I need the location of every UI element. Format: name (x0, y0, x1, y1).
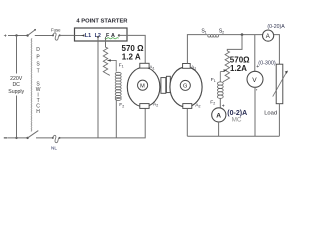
svg-text:DC: DC (12, 82, 20, 88)
svg-text:2: 2 (156, 104, 158, 108)
wire generator A1 up to top wire (187, 35, 207, 64)
generator brush terminal top (183, 64, 191, 69)
starter box (75, 28, 128, 41)
label S1 (201, 29, 206, 35)
svg-text:Load: Load (264, 110, 277, 116)
label S2 (219, 28, 224, 34)
svg-text:Fuse: Fuse (51, 28, 61, 33)
load rheostat rect (276, 64, 283, 104)
wire load down to rail (278, 104, 280, 137)
wire F stud down to rheostat (105, 37, 107, 47)
svg-text:4 POINT STARTER: 4 POINT STARTER (76, 18, 128, 24)
svg-text:D: D (36, 47, 40, 53)
svg-text:1: 1 (214, 79, 216, 83)
label A1 (generator) (191, 64, 196, 70)
svg-text:2: 2 (222, 30, 224, 34)
wire voltmeter down to rail (254, 87, 256, 136)
node junction generator field tap (241, 33, 244, 36)
svg-text:A: A (266, 34, 270, 40)
svg-text:(0-20)A: (0-20)A (267, 24, 285, 30)
generator inner circle G (180, 80, 190, 90)
svg-text:1.2 A: 1.2 A (122, 52, 141, 61)
wire ammeter MC down to rail (218, 122, 220, 136)
label F2 (generator field bottom) (210, 99, 215, 105)
label 220V DC Supply (8, 76, 24, 95)
label A2 (motor) (153, 101, 158, 107)
motor armature circle (127, 67, 160, 106)
svg-text:1: 1 (122, 65, 124, 69)
svg-text:2: 2 (199, 105, 201, 109)
wire field tap down and left to rheostat (227, 35, 242, 51)
svg-text:1: 1 (153, 67, 155, 71)
resistor generator field rheostat zigzag (223, 51, 230, 82)
switch DPST bottom pole blade (26, 137, 28, 139)
fuse coil between S1 and S2 (208, 34, 219, 37)
svg-text:1: 1 (194, 67, 196, 71)
svg-text:MC: MC (232, 116, 242, 123)
wire bottom rail generator side (187, 135, 279, 137)
node minus terminal of 220V supply (4, 137, 7, 139)
wire A stud right and down to motor A1 (119, 35, 145, 63)
node L2 stud (97, 36, 99, 38)
svg-text:(0-300): (0-300) (258, 61, 276, 67)
resistor motor field rheostat zigzag (103, 47, 110, 75)
wire L2 stud down to bottom rail (97, 37, 99, 138)
node junction top-left (15, 34, 17, 36)
fuse Fuse (top wire) (51, 28, 61, 41)
svg-text:1.2A: 1.2A (230, 64, 247, 73)
wire ammeter right and down to load (274, 35, 280, 65)
svg-text:+: + (4, 33, 7, 39)
svg-text:L1: L1 (85, 33, 91, 39)
generator brush terminal bottom (183, 104, 192, 109)
wire generator A2 down to rail (186, 108, 188, 136)
svg-text:2: 2 (213, 102, 215, 106)
wire top after switch to fuse (35, 35, 53, 37)
green squiggle under F A (105, 38, 119, 39)
coupling box generator side (166, 76, 170, 92)
svg-text:G: G (183, 84, 187, 90)
wire bottom after switch to fuse NL (36, 137, 53, 139)
wire voltmeter tap down (254, 35, 256, 72)
svg-text:H: H (36, 109, 40, 115)
label DPST SWITCH vertical (36, 47, 41, 115)
rheostat wiper arrow (motor) (110, 60, 116, 71)
inductor generator field coil F1-F2 (217, 82, 223, 99)
wire into L1 with arrow (75, 35, 83, 37)
wire bottom rail to motor A2 (60, 108, 146, 137)
motor inner circle M (138, 80, 148, 90)
wire left supply rail lower (16, 96, 18, 138)
svg-text:V: V (252, 77, 257, 84)
motor brush terminal top (140, 63, 149, 68)
wire top from + to DPST switch (8, 35, 28, 37)
ammeter MC circle (212, 108, 226, 122)
label F2 (motor field bottom) (119, 102, 124, 108)
svg-text:NL: NL (51, 145, 57, 150)
wire left supply rail upper (16, 36, 18, 74)
load arrow diagonal (273, 73, 287, 97)
label A2 (generator) (195, 102, 200, 108)
wire top fuse to starter box (60, 34, 75, 36)
label F1 (motor field top) (119, 62, 124, 68)
svg-text:M: M (140, 83, 145, 89)
switch DPST linkage dotted line (30, 38, 33, 131)
svg-text:1: 1 (205, 31, 207, 35)
wire generator field coil down to ammeter MC (219, 98, 221, 108)
label A1 (motor) (149, 64, 154, 70)
svg-text:A: A (216, 112, 221, 119)
voltmeter circle V (247, 71, 263, 87)
svg-text:220V: 220V (10, 76, 23, 82)
generator armature circle (170, 67, 202, 107)
node junction bottom-left (15, 137, 17, 139)
coupling box motor side (161, 78, 166, 94)
ammeter (0-20)A circle (263, 30, 274, 41)
wire S2 to ammeter (219, 34, 263, 36)
svg-text:T: T (37, 69, 40, 75)
inductor motor field coil F1-F2 (115, 72, 121, 100)
switch DPST top pole blade (26, 34, 28, 36)
node voltmeter minus tick (256, 89, 257, 90)
svg-text:2: 2 (122, 105, 124, 109)
label F1 (generator field top) (211, 77, 216, 83)
rheostat wiper arrow (generator) (220, 72, 224, 82)
svg-text:Supply: Supply (8, 89, 24, 95)
node A stud (118, 34, 120, 36)
wire motor field coil down to bottom rail (115, 99, 117, 138)
motor brush terminal bottom (140, 104, 149, 109)
wire bottom from - to switch (8, 137, 28, 139)
fuse NL (bottom wire) (51, 135, 61, 150)
